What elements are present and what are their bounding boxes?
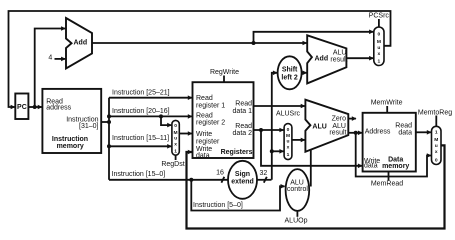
svg-text:Instruction [15–11]: Instruction [15–11] (112, 135, 169, 142)
wire: instruction 15-11 to RegDst mux input 1 (109, 145, 171, 147)
wire: MemtoReg control stub (435, 116, 437, 127)
svg-text:1: 1 (287, 152, 290, 158)
svg-text:Sign: Sign (235, 171, 250, 178)
svg-text:Add: Add (315, 56, 329, 63)
wire: instruction 20-16 to read register 2 (109, 115, 192, 117)
mux ALUSrc (0/1) (284, 124, 292, 160)
wire: Shift left 2 output to branch Add (302, 72, 307, 74)
wire: RegDst mux output to write register (179, 133, 192, 135)
svg-text:Read: Read (196, 95, 213, 102)
svg-text:u: u (435, 144, 438, 149)
svg-text:control: control (287, 186, 308, 193)
wire: instruction 15-0 to sign extend (109, 179, 229, 181)
svg-text:1: 1 (174, 148, 177, 154)
wire: read data 2 down to data memory write data (261, 130, 362, 166)
svg-text:address: address (46, 105, 71, 112)
wire: instruction 5-0 to ALU control (191, 180, 284, 211)
svg-text:RegDst: RegDst (161, 161, 184, 168)
wire: Add output (PC+4) to second Add input (92, 42, 307, 44)
mux MemtoReg (1/0) (432, 126, 442, 164)
wire: RegDst control stub (175, 155, 177, 160)
node: bus tap 15-11 (107, 144, 111, 148)
wire: ALUOp control stub (296, 211, 298, 217)
svg-text:0: 0 (287, 127, 290, 133)
wire: instruction 25-21 to read register 1 (109, 97, 192, 99)
svg-text:0: 0 (174, 123, 177, 129)
wire: Zero output stub (348, 118, 356, 120)
wire: 32-bit slash mark (264, 177, 267, 183)
alu main ALU (305, 100, 348, 152)
svg-text:[31–0]: [31–0] (79, 123, 99, 130)
instruction memory box (42, 89, 101, 153)
svg-text:Instruction [20–16]: Instruction [20–16] (112, 108, 170, 115)
node: riser branch to ALUSrc mux input 1 (270, 149, 274, 153)
svg-text:0: 0 (435, 157, 438, 163)
svg-text:PC: PC (17, 104, 27, 111)
svg-text:MemtoReg: MemtoReg (418, 109, 452, 116)
wire: memory read data to MemtoReg mux input 1 (416, 131, 431, 133)
svg-text:Instruction [15–0]: Instruction [15–0] (112, 171, 166, 178)
svg-text:data 2: data 2 (233, 130, 253, 137)
svg-text:x: x (435, 150, 438, 155)
wire: ALUSrc mux output to ALU input 2 (292, 139, 305, 141)
wire: ALU result to data memory address (348, 132, 362, 134)
adder Add (branch target), ALU result (307, 35, 346, 83)
mux PCSrc (0/1) (374, 27, 384, 66)
svg-text:x: x (378, 52, 381, 57)
svg-text:result: result (330, 57, 347, 64)
wire: PCSrc mux output loop back to PC (9, 11, 391, 107)
svg-text:x: x (287, 146, 290, 151)
svg-text:M: M (377, 39, 381, 45)
svg-text:ALUSrc: ALUSrc (276, 111, 301, 118)
svg-text:memory: memory (57, 143, 84, 150)
svg-text:1: 1 (435, 130, 438, 136)
wire: PC to Add (PC+4) (35, 29, 65, 108)
svg-text:u: u (377, 46, 380, 51)
node: 15-0 branch junction (189, 178, 193, 182)
wire: sign-extend riser into Shift left 2 (272, 73, 277, 180)
node: 20-16 branch junction (159, 114, 163, 118)
svg-text:ALU: ALU (312, 124, 326, 131)
svg-text:register 2: register 2 (196, 120, 225, 127)
wire: riser branch to ALUSrc mux input 1 (272, 150, 284, 152)
svg-text:data: data (364, 163, 378, 170)
svg-text:Address: Address (365, 129, 391, 136)
register PC (15, 94, 28, 120)
alu Shift left 2 (278, 56, 302, 89)
wire: 16-bit slash mark (221, 177, 224, 183)
svg-text:Read: Read (235, 101, 252, 108)
memory Data memory box (363, 113, 416, 172)
svg-text:result: result (329, 129, 346, 136)
wire: sign extend output to riser (257, 179, 272, 181)
svg-text:Add: Add (74, 39, 88, 46)
svg-text:Zero: Zero (332, 115, 347, 122)
svg-text:32: 32 (260, 170, 268, 177)
svg-text:data: data (398, 129, 412, 136)
svg-text:0: 0 (378, 31, 381, 37)
wire: PC+4 to PCSrc mux input 0 (254, 32, 374, 43)
svg-text:u: u (174, 137, 177, 142)
mux RegDst (0/1) (172, 120, 179, 155)
wire: ALU control output to ALU (310, 149, 312, 187)
wire: instruction [31-0] output to bus (101, 121, 109, 123)
svg-text:Instruction: Instruction (52, 136, 88, 143)
svg-text:ALUOp: ALUOp (285, 218, 308, 225)
svg-text:register: register (196, 138, 220, 145)
oval ALU control (286, 169, 310, 211)
wire: MemRead control stub (388, 172, 390, 181)
svg-text:memory: memory (382, 163, 409, 170)
svg-text:M: M (434, 137, 438, 143)
node: bus tap 20-16 (107, 114, 111, 118)
svg-text:RegWrite: RegWrite (210, 69, 239, 76)
wire: PCSrc control stub (378, 19, 380, 27)
register file Registers box (193, 82, 254, 158)
svg-text:ALU: ALU (333, 50, 347, 57)
svg-text:Instruction [5–0]: Instruction [5–0] (193, 202, 243, 209)
node: PC+4 junction (252, 41, 256, 45)
node: bus tap 31-0 (107, 120, 111, 124)
wire: PC to instruction memory read address (28, 106, 41, 108)
node: read data 2 junction (259, 128, 263, 132)
svg-text:data: data (196, 153, 210, 160)
svg-text:data 1: data 1 (233, 108, 253, 115)
svg-text:Write: Write (196, 131, 212, 138)
wire: 20-16 branch to RegDst mux input 0 (161, 116, 171, 125)
svg-text:MemRead: MemRead (371, 180, 403, 187)
node: PC output junction (33, 105, 37, 109)
svg-text:MemWrite: MemWrite (371, 100, 403, 107)
svg-text:x: x (174, 143, 177, 148)
svg-text:Instruction [25–21]: Instruction [25–21] (112, 90, 170, 97)
wire: MemtoReg mux output loop back to registers write data (187, 145, 445, 228)
wire: read data 2 to ALUSrc mux input 0 (254, 129, 284, 131)
node: ALU result junction (354, 131, 358, 135)
wire: MemWrite control stub (386, 106, 388, 112)
svg-text:1: 1 (378, 59, 381, 65)
oval sign extend (228, 161, 257, 199)
wire: read data 1 to ALU input 1 (254, 105, 305, 107)
svg-text:4: 4 (48, 55, 52, 62)
adder Add (PC+4) (66, 18, 92, 69)
svg-text:register 1: register 1 (196, 102, 225, 109)
svg-text:left 2: left 2 (281, 75, 297, 82)
wire: ALU result down and around to MemtoReg mux input 0 (356, 133, 431, 177)
svg-text:u: u (287, 140, 290, 145)
svg-text:Shift: Shift (282, 66, 298, 73)
svg-text:Read: Read (235, 123, 252, 130)
svg-text:16: 16 (216, 170, 224, 177)
wire: RegWrite control stub (223, 76, 225, 83)
svg-text:Registers: Registers (221, 149, 253, 156)
wire: branch Add output to PCSrc mux input 1 (346, 57, 373, 59)
svg-text:PCSrc: PCSrc (369, 12, 390, 19)
svg-text:M: M (286, 133, 290, 139)
svg-text:Read: Read (196, 113, 213, 120)
wire: instruction bus vertical (108, 98, 110, 180)
svg-text:extend: extend (231, 178, 254, 185)
svg-text:M: M (174, 130, 178, 136)
wire: constant 4 into Add (55, 58, 66, 60)
